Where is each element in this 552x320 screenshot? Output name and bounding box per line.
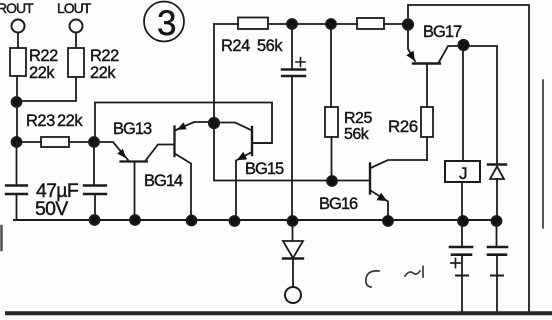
node C+ / rail: [288, 216, 298, 226]
scan left edge: [0, 226, 2, 250]
node BG17 collector / relay: [458, 40, 468, 50]
wire top-right loop: [408, 5, 529, 313]
node ROUT/LOUT mix: [12, 97, 22, 107]
wire relay feed: [462, 46, 464, 162]
wire node A up and across: [95, 103, 272, 144]
node relay / rail: [458, 216, 468, 226]
node R25 top: [326, 19, 336, 29]
capacitor C2 (unlabeled): [93, 142, 95, 185]
svg-text:22k: 22k: [57, 112, 83, 130]
terminal output: [285, 287, 301, 303]
terminal LOUT: [70, 20, 83, 33]
diode D2 (output, below rail): [283, 221, 303, 287]
transistor BG17: [406, 23, 497, 164]
resistor R26: [388, 64, 433, 160]
resistor R24 56k: [238, 18, 268, 30]
svg-text:R22: R22: [90, 47, 119, 65]
wire LOUT to R22b: [75, 33, 77, 48]
circled figure number 3: [144, 2, 184, 44]
capacitor C+ (polarized): [282, 24, 305, 221]
resistor (top, unlabeled): [357, 18, 384, 29]
svg-text:BG14: BG14: [144, 172, 183, 190]
svg-text:R22: R22: [29, 47, 58, 65]
capacitor 47uF 50V: [16, 142, 18, 185]
mark parenthesis: [366, 271, 379, 287]
node A (DC sense): [89, 137, 99, 147]
node BG15 emitter / rail: [230, 216, 240, 226]
resistor R25 56k: [325, 24, 372, 181]
terminal ROUT: [12, 20, 25, 33]
wire ROUT to R22a: [17, 33, 19, 48]
wire right border: [542, 80, 544, 228]
svg-text:J: J: [459, 164, 468, 183]
resistor R22 (left): [10, 48, 26, 76]
svg-text:3: 3: [157, 4, 176, 43]
node R23 left: [12, 137, 22, 147]
diode D1 (flyback): [488, 165, 506, 222]
node BG14 emitter / BG15 collector: [209, 118, 219, 128]
svg-text:R25: R25: [344, 110, 372, 127]
svg-text:LOUT: LOUT: [57, 0, 92, 16]
svg-text:BG17: BG17: [423, 23, 462, 41]
scan bottom line: [7, 311, 552, 315]
transistor BG14: [144, 122, 213, 220]
transistor BG15: [214, 123, 284, 222]
node R24 / C+: [287, 19, 297, 29]
transistor BG13: [94, 120, 174, 220]
node BG16 emitter / rail: [383, 216, 393, 226]
node diode / rail end: [492, 216, 502, 226]
bottom rail: [14, 219, 497, 221]
top rail: [214, 23, 408, 25]
capacitor C4 (bottom right): [488, 221, 507, 313]
svg-text:R23: R23: [26, 112, 55, 130]
node BG17 emitter / top rail: [403, 19, 413, 29]
capacitor C3 (polarized, bottom right): [450, 221, 472, 313]
relay coil J: [445, 161, 480, 221]
node BG13 base / rail: [130, 215, 140, 225]
node R25 bottom / BG16 base: [327, 176, 337, 186]
node C2 / rail: [90, 215, 100, 225]
wire BG14/BG15 node down and across to BG16 base: [214, 123, 369, 181]
svg-text:56k: 56k: [344, 126, 370, 143]
resistor R22 (right): [68, 48, 84, 77]
node BG14 collector / rail: [187, 216, 197, 226]
svg-text:R26: R26: [388, 117, 418, 136]
transistor BG16: [319, 160, 427, 221]
svg-text:56k: 56k: [257, 37, 283, 55]
wire R22b to node: [17, 77, 76, 101]
mark squiggle: [405, 267, 423, 278]
svg-text:50V: 50V: [35, 198, 68, 220]
svg-text:ROUT: ROUT: [0, 0, 34, 16]
wire R22a down left rail: [16, 76, 18, 142]
wire top feed down to BG14/BG15 node: [213, 24, 215, 123]
svg-text:R24: R24: [221, 37, 250, 55]
svg-text:BG16: BG16: [319, 195, 358, 213]
svg-text:22k: 22k: [29, 64, 55, 82]
svg-text:BG15: BG15: [245, 160, 284, 178]
svg-text:BG13: BG13: [113, 120, 152, 138]
svg-text:22k: 22k: [90, 64, 116, 82]
